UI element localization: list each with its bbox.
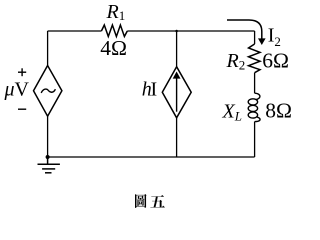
wire top-right horizontal (127, 30, 254, 32)
plus sign (18, 68, 26, 76)
svg-text:I2: I2 (268, 25, 281, 50)
svg-text:6Ω: 6Ω (262, 49, 289, 73)
minus sign (18, 108, 26, 110)
inductor XL coil (248, 93, 260, 121)
ground (38, 157, 60, 173)
wire right vertical middle stub (254, 73, 256, 94)
resistor R2 (249, 44, 261, 73)
source hI U2 (dependent current source diamond) (162, 67, 191, 118)
svg-text:XL: XL (222, 101, 242, 124)
current arrow I2 (227, 20, 262, 39)
wire middle vertical lower (176, 118, 178, 157)
wire top-left horizontal (48, 30, 102, 32)
tilde inside source (41, 89, 55, 93)
caption: char tu (figure) (135, 194, 147, 208)
svg-text:μV: μV (4, 79, 30, 101)
wire right vertical top stub (254, 31, 256, 44)
source mu-V U1 (dependent voltage source diamond) (34, 66, 62, 117)
svg-text:8Ω: 8Ω (265, 99, 292, 123)
wire right vertical lower (254, 122, 256, 158)
wire bottom horizontal (48, 156, 255, 158)
node junction bottom left (46, 155, 50, 159)
svg-text:hI: hI (142, 79, 157, 101)
svg-text:4Ω: 4Ω (100, 36, 127, 60)
wire middle vertical upper (176, 31, 178, 67)
svg-text:R2: R2 (226, 50, 246, 73)
resistor R1 (101, 25, 127, 37)
svg-text:R1: R1 (106, 1, 126, 23)
caption: char wu (five) (150, 195, 165, 208)
wire left vertical lower (47, 116, 49, 157)
wire left vertical upper (47, 31, 49, 66)
arrow inside current source (176, 78, 178, 112)
node junction top middle (175, 30, 178, 33)
